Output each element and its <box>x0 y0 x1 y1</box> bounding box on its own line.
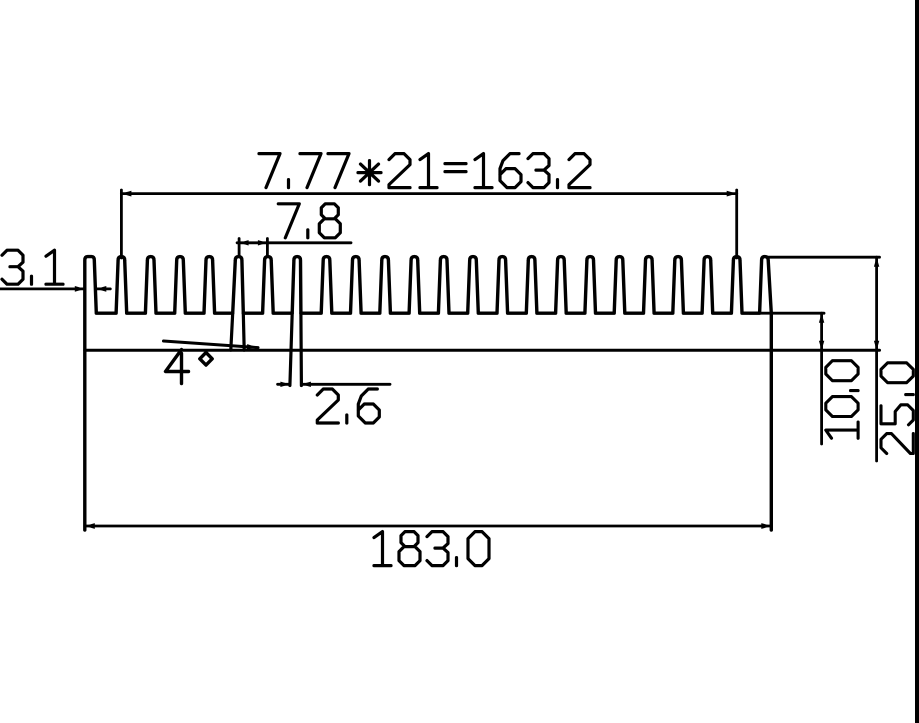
arrow 3.1 pointing left at fin1 right side <box>96 286 106 292</box>
drawing border bar (right edge) <box>915 0 919 723</box>
dim 3.1 leader line from left margin <box>0 287 84 290</box>
dim 163.2 extension line left <box>120 190 123 258</box>
dim line 7.8 <box>237 241 351 244</box>
arrow on 4 deg line <box>247 344 258 349</box>
arrow 183.0 left (points left) <box>85 523 95 529</box>
arrow 3.1 pointing right at profile edge <box>75 286 85 292</box>
fin tip extension line (right) <box>767 256 880 259</box>
arrow 2.6 pointing right <box>280 382 290 387</box>
dim line 10.0 vertical <box>820 313 823 444</box>
dim 2.6 left tail <box>278 383 290 386</box>
channel bottom extension line (right) <box>750 312 824 315</box>
base bottom line, extended right as extension line <box>85 349 880 352</box>
4 deg reference line (slanted) <box>164 341 259 348</box>
dim line 7.77*21=163.2 <box>121 192 736 195</box>
arrow right of 7.8 (points right) <box>258 240 268 245</box>
dim 7.8 extension line left (fin6) <box>238 239 241 257</box>
dim 7.8 extension line right (fin7) <box>266 239 269 257</box>
fin6 right side extended to base (draft ref) <box>242 313 246 350</box>
text 2.6 <box>317 389 379 423</box>
dim line 25.0 vertical <box>875 257 878 461</box>
text 25.0 (rotated) <box>881 363 913 454</box>
degree symbol (diamond) <box>200 353 212 366</box>
fin8 right side extended down (2.6 ext line) <box>299 313 303 385</box>
arrow 183.0 right (points right) <box>761 523 771 529</box>
arrow 2.6 pointing left <box>301 382 311 387</box>
arrow left of 7.8 (points left) <box>239 240 249 245</box>
fin6 left side extended to base (draft ref) <box>231 313 233 350</box>
arrow left of 163.2 <box>121 191 131 197</box>
text 7.8 <box>278 204 340 238</box>
heatsink profile outline with 24 fins <box>85 257 772 530</box>
dim 3.1 right tail <box>96 287 110 290</box>
dim 2.6 right line <box>301 383 390 386</box>
fin8 left side extended down (2.6 ext line) <box>290 313 292 385</box>
dim 163.2 extension line right <box>735 190 738 258</box>
text 3.1 <box>2 250 63 284</box>
arrow 10.0 up <box>819 313 824 323</box>
dim line 183.0 <box>85 525 772 528</box>
text 7.77*21=163.2 <box>259 154 590 188</box>
arrow right of 163.2 <box>727 191 737 197</box>
text 4 (angle value) <box>166 350 189 384</box>
arrow 10.0 down <box>819 341 824 351</box>
text 183.0 <box>374 532 489 566</box>
arrow 25.0 up <box>874 257 879 267</box>
arrow 25.0 down <box>874 341 879 351</box>
text 10.0 (rotated) <box>826 361 858 439</box>
